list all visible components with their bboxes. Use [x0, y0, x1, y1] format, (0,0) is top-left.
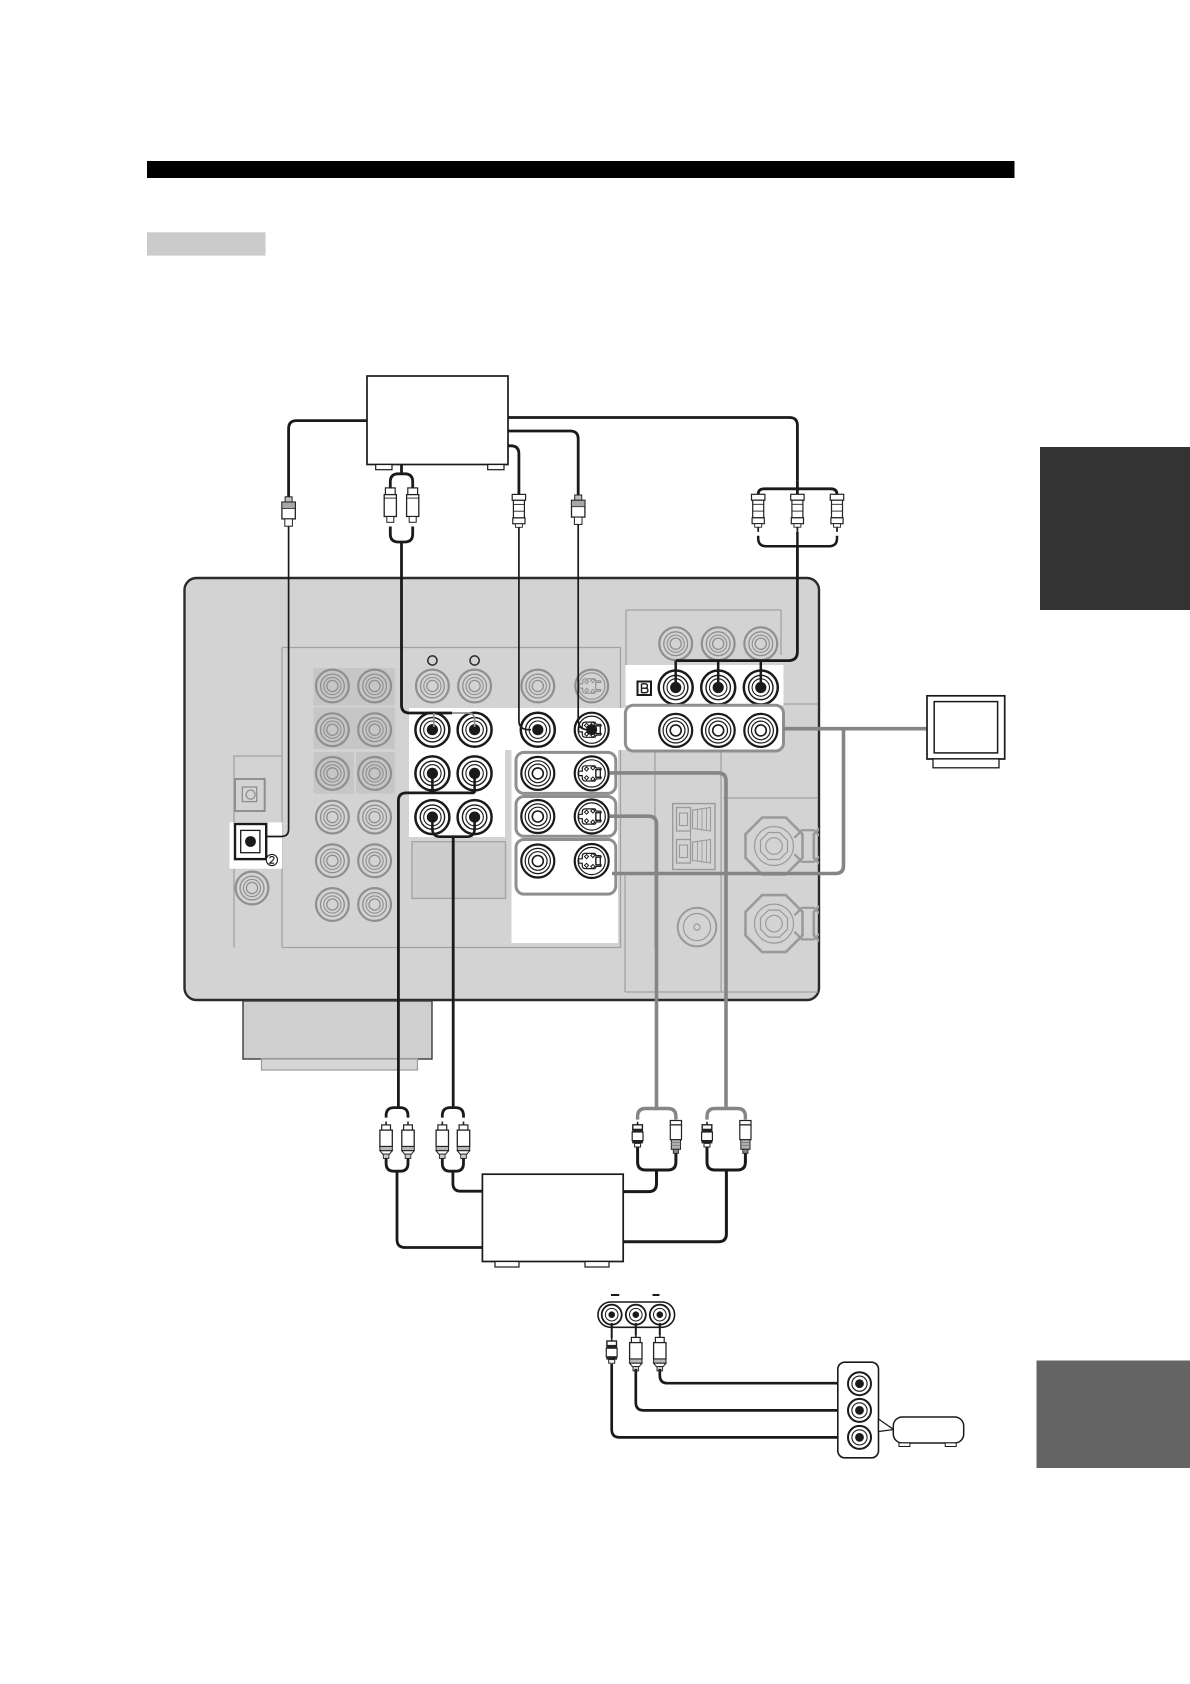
output jack pill: [598, 1302, 675, 1327]
gray sub-box left: [412, 842, 452, 899]
label dash 2: [653, 1294, 660, 1296]
label dash 1: [611, 1294, 619, 1296]
plug: pair B left RCA: [436, 1122, 448, 1159]
active jacks: DVD video + s-video: [521, 713, 609, 747]
video group 2: [516, 797, 616, 837]
gray sub-box right: [454, 842, 505, 899]
wire: component cable from DVD (black): [508, 418, 837, 688]
wire: out left to amp jack3: [612, 1364, 851, 1437]
speaker binding posts pair 1: [746, 818, 871, 875]
B icon: [638, 682, 652, 696]
optical jack active: [235, 824, 266, 859]
wire: audio row3 to VCR (black): [398, 773, 474, 1107]
wire: monitor out to TV (gray): [784, 727, 928, 731]
gray jack row: video in top: [521, 670, 608, 703]
gray component video row: [659, 627, 777, 660]
plug: component Pr: [830, 494, 843, 532]
right margin tab light: [1037, 1361, 1190, 1469]
wire: video group 2 s-video down (gray): [610, 816, 657, 1108]
white highlight: component active row: [625, 665, 783, 705]
wire: audio row4 to VCR (black): [432, 817, 474, 1108]
plug: pair B right RCA: [457, 1122, 469, 1159]
coax antenna jack: [678, 908, 717, 947]
screw hole left: [428, 656, 437, 665]
plug: pair D right s-video: [740, 1121, 751, 1154]
plug: component Y: [752, 494, 765, 532]
video group 1 monitor out: [516, 752, 616, 793]
device box: DVD player: [367, 376, 508, 470]
active jacks: DVD audio L/R: [415, 713, 491, 747]
component monitor out group: [625, 705, 783, 751]
cable pair B bracket (black): [442, 1108, 482, 1192]
plug: pair C right s-video: [670, 1121, 681, 1154]
plug: audio pair right: [407, 488, 419, 522]
speaker spring clips: [673, 804, 715, 870]
active jacks: audio row 3: [415, 756, 491, 790]
wire: audio pair cable from DVD (black): [390, 465, 474, 728]
screw hole right: [470, 656, 479, 665]
plug: video pin cable: [512, 494, 525, 532]
cable pair A bracket (black): [386, 1108, 482, 1248]
device box: VCR: [482, 1174, 623, 1267]
wire: video pin cable from DVD (black): [508, 446, 531, 730]
wire: out right to amp jack1: [660, 1369, 851, 1383]
pointer wedge: [879, 1419, 894, 1432]
plug: pair A left RCA: [380, 1122, 392, 1159]
white highlight: optical in: [230, 822, 283, 868]
plug: optical cable: [282, 497, 295, 526]
power pedestal block: [243, 1001, 432, 1070]
wire: out mid to amp jack2: [636, 1369, 851, 1410]
device: subwoofer: [893, 1417, 963, 1447]
amp input jack strip: [838, 1362, 879, 1458]
optical jack gray: [235, 779, 265, 811]
wire: TV branch down to video group 3 (gray): [612, 729, 844, 874]
white highlight: video column: [512, 745, 619, 943]
video group 3: [516, 840, 616, 895]
panel sub-outlines: [234, 610, 818, 992]
wire: s-video cable from DVD (black): [508, 431, 590, 730]
wire: optical cable from DVD (black): [267, 421, 368, 837]
circled 2 marker: [266, 854, 277, 865]
plug: out left (dark): [606, 1338, 617, 1363]
plug: pair D left RCA: [702, 1122, 713, 1147]
active component video jacks: [659, 671, 778, 705]
plug: out mid: [630, 1334, 642, 1371]
section label block: [147, 232, 266, 255]
gray jack: phono gnd column: [236, 872, 269, 905]
darker block behind tape jacks rows 1-2: [314, 668, 395, 749]
wire: video group 1 s-video down (gray): [610, 773, 726, 1109]
white highlight: audio L/R columns: [409, 750, 505, 837]
white highlight: center audio field: [409, 708, 626, 750]
receiver rear panel: [185, 578, 820, 1000]
active jacks: audio row 4: [415, 800, 491, 834]
gray jack row: audio in top: [416, 670, 491, 703]
gray jack field: tape/cd rows: [316, 670, 391, 921]
plug: s-video cable: [572, 495, 585, 524]
plug: out right: [654, 1334, 666, 1371]
header rule bar: [147, 161, 1015, 178]
plug: component Pb: [791, 494, 804, 532]
TV monitor icon: [927, 696, 1005, 768]
darker block behind tape jacks row 3: [314, 752, 395, 794]
plug: pair C left RCA: [632, 1122, 643, 1147]
cable pair C bracket (gray top, black bottom): [623, 1109, 676, 1192]
right margin tab dark: [1040, 447, 1190, 610]
plug: audio pair left: [384, 488, 396, 522]
speaker binding posts pair 2: [746, 895, 871, 952]
stub wires pill to plugs: [612, 1323, 660, 1338]
plug: pair A right RCA: [402, 1122, 414, 1159]
cable pair D bracket (gray top, black bottom): [623, 1109, 745, 1242]
